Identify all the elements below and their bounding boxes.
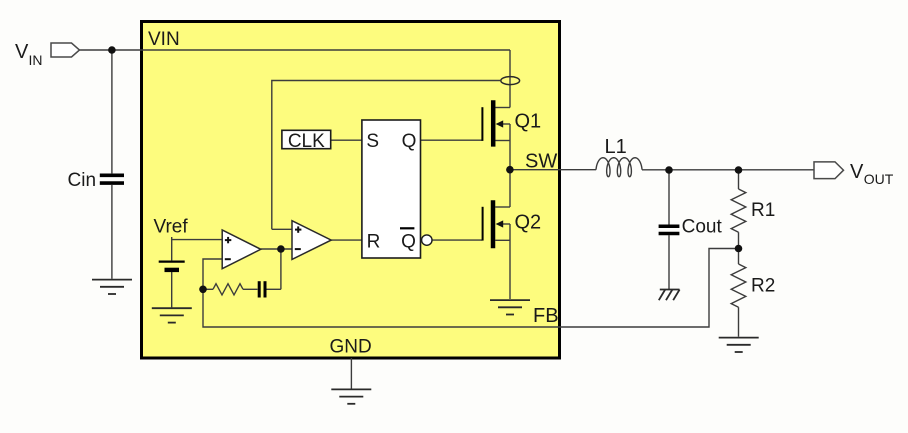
svg-text:L1: L1: [605, 136, 627, 158]
svg-text:FB: FB: [533, 305, 559, 327]
svg-text:R: R: [367, 231, 381, 252]
svg-text:R2: R2: [751, 275, 775, 296]
svg-text:Cin: Cin: [68, 170, 97, 191]
svg-text:OUT: OUT: [864, 171, 894, 187]
svg-text:Vref: Vref: [154, 217, 189, 238]
svg-text:Q1: Q1: [515, 110, 542, 132]
svg-text:S: S: [366, 131, 379, 152]
svg-text:Q2: Q2: [515, 212, 542, 234]
svg-text:V: V: [15, 41, 29, 63]
svg-text:CLK: CLK: [288, 131, 325, 152]
svg-text:Cout: Cout: [682, 216, 723, 237]
svg-text:Q: Q: [402, 131, 417, 152]
svg-text:SW: SW: [525, 151, 557, 173]
svg-text:Q: Q: [401, 231, 416, 252]
svg-text:R1: R1: [751, 200, 775, 221]
svg-text:GND: GND: [330, 336, 372, 357]
svg-text:IN: IN: [29, 52, 43, 68]
svg-text:V: V: [850, 161, 864, 183]
svg-text:VIN: VIN: [148, 29, 180, 50]
